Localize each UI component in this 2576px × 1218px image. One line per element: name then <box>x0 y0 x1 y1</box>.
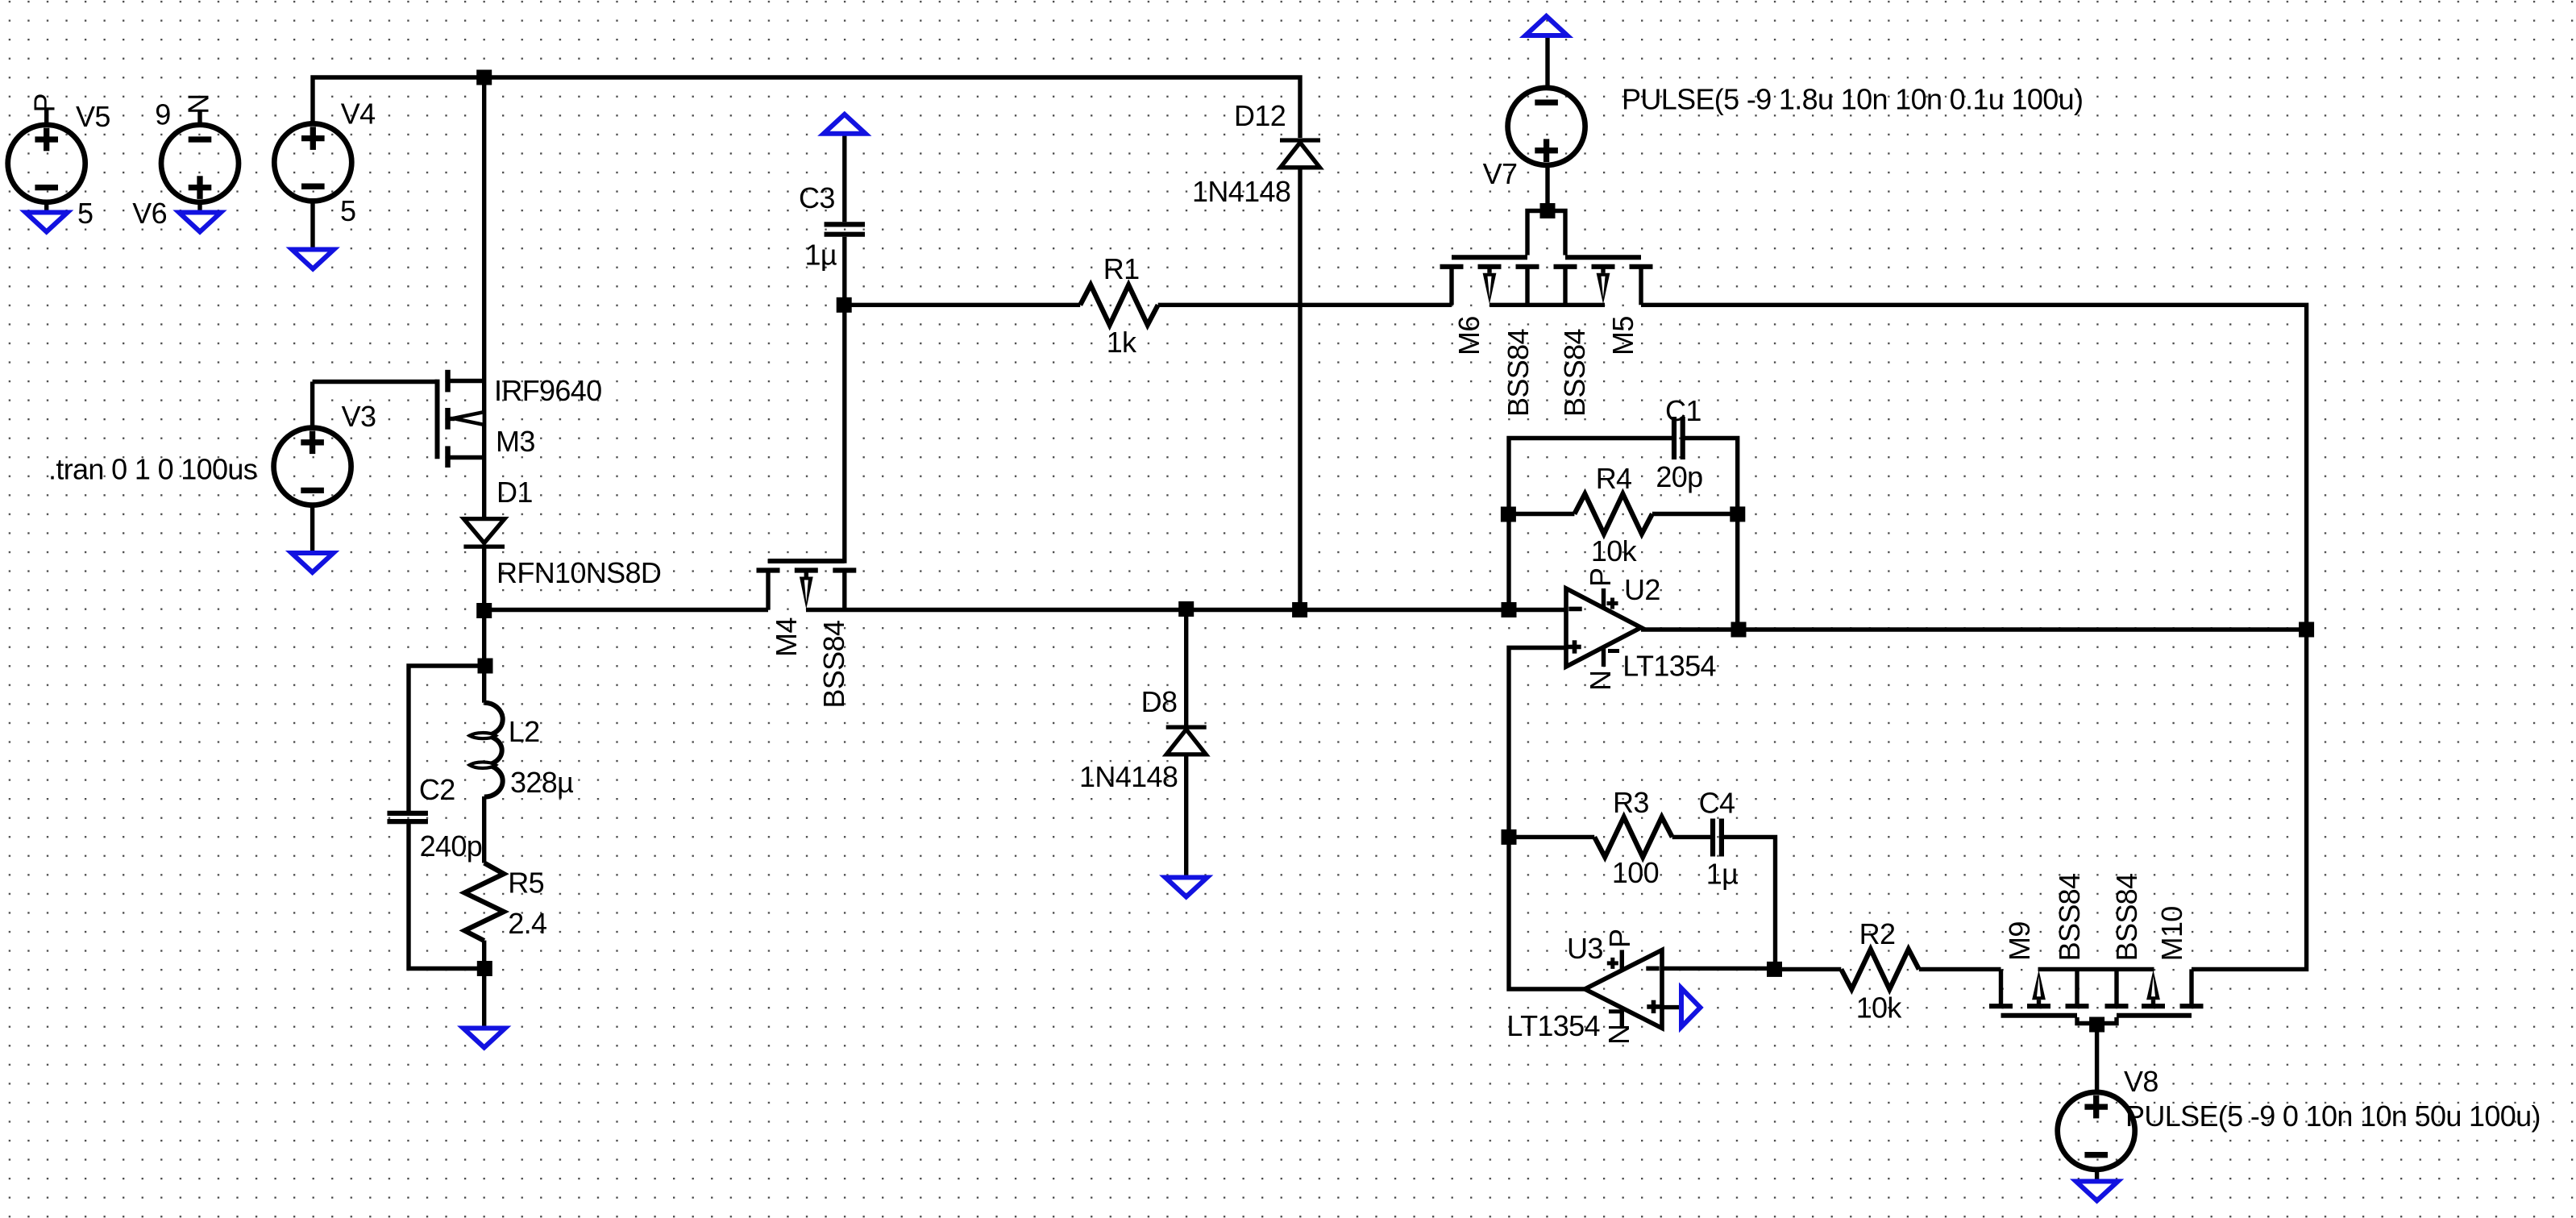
transistor M5 BSS84 <box>1554 257 1653 305</box>
junction node U2 output / feedback <box>1731 622 1747 638</box>
wire M6-M5 middle rail <box>1490 303 1605 307</box>
wire V3 bottom pin <box>310 505 314 552</box>
wire R4 row left <box>1509 512 1574 516</box>
svg-text:N: N <box>1602 1025 1635 1045</box>
label D8 <box>1141 685 1178 718</box>
label M3 <box>496 425 535 458</box>
wire U2 output row <box>1641 627 2307 631</box>
svg-text:IRF9640: IRF9640 <box>494 374 602 407</box>
wire main bus right segment <box>806 608 1566 612</box>
svg-text:2.4: 2.4 <box>508 907 546 940</box>
wire feedback left vertical and C1 row left <box>1509 439 1674 610</box>
label M10 <box>2155 906 2188 961</box>
label IRF9640 <box>494 374 602 407</box>
wire gate yoke to V8 <box>2095 1024 2099 1092</box>
svg-text:V8: V8 <box>2124 1065 2158 1098</box>
label V4 <box>341 98 376 131</box>
svg-text:BSS84: BSS84 <box>1502 329 1535 417</box>
label L2 <box>509 715 540 748</box>
label R2 <box>1859 917 1896 950</box>
svg-text:M4: M4 <box>770 617 803 657</box>
wire V8 ground stub <box>2095 1170 2099 1180</box>
svg-text:N: N <box>1584 671 1617 691</box>
svg-text:20p: 20p <box>1656 460 1702 493</box>
net label N on V6 <box>182 94 215 114</box>
label M9 <box>2003 921 2036 961</box>
svg-text:.tran 0 1 0 100us: .tran 0 1 0 100us <box>48 453 257 486</box>
value LT1354 of U3 <box>1506 1009 1600 1042</box>
resistor R1 <box>1080 285 1158 326</box>
svg-text:M9: M9 <box>2003 921 2036 961</box>
junction node C4 / R2 / U3 inverting <box>1767 962 1782 977</box>
svg-text:V5: V5 <box>76 100 110 133</box>
label M5 <box>1606 316 1639 355</box>
svg-text:V3: V3 <box>342 400 376 433</box>
value 328u of L2 <box>510 766 573 799</box>
svg-text:LT1354: LT1354 <box>1622 650 1716 683</box>
svg-text:L2: L2 <box>509 715 540 748</box>
junction V8 gate node <box>2089 1017 2104 1033</box>
transistor M9 BSS84 <box>1989 969 2089 1015</box>
wire L2 to R5 <box>482 796 486 863</box>
inductor L2 <box>470 666 503 797</box>
junction node R3 / left vertical <box>1502 829 1517 845</box>
wire D8 bottom lead <box>1184 754 1188 876</box>
capacitor C2 <box>387 813 428 821</box>
svg-text:M6: M6 <box>1452 316 1485 355</box>
label C4 <box>1699 786 1735 819</box>
op-amp U3 LT1354 <box>1585 950 1662 1029</box>
resistor R3 <box>1594 817 1672 858</box>
wire R2 to M9 <box>1919 967 2001 971</box>
directive .tran <box>48 453 257 486</box>
net label P on U3 <box>1603 929 1636 948</box>
wire main bus left segment <box>484 608 768 612</box>
op-amp U2 LT1354 <box>1566 588 1641 667</box>
net label P on V5 <box>28 94 61 112</box>
capacitor C4 <box>1713 819 1722 857</box>
wire M9/M10 gate yoke <box>2077 1017 2117 1024</box>
value 240p of C2 <box>420 829 483 863</box>
wire ground stub below R5 node <box>482 969 486 1028</box>
diode D8 <box>1166 727 1207 754</box>
wire V7 flag stub <box>1545 36 1549 87</box>
value 20p of C1 <box>1656 460 1702 493</box>
label C3 <box>799 181 835 214</box>
wire M3 drain column <box>482 77 486 381</box>
label U2 <box>1624 573 1660 606</box>
wire V5 top stub <box>44 110 48 125</box>
wire D12 bottom lead <box>1298 168 1302 610</box>
wire V6 top stub <box>197 110 202 125</box>
label D12 <box>1234 99 1286 132</box>
svg-text:N: N <box>182 94 215 114</box>
svg-text:C1: C1 <box>1665 394 1701 427</box>
svg-text:LT1354: LT1354 <box>1506 1009 1600 1042</box>
svg-text:BSS84: BSS84 <box>2053 874 2086 962</box>
transistor M6 BSS84 <box>1440 257 1539 305</box>
power flag above C3 <box>824 114 866 134</box>
svg-text:R1: R1 <box>1103 252 1140 285</box>
svg-text:PULSE(5 -9 0 10n 10n 50u 100u): PULSE(5 -9 0 10n 10n 50u 100u) <box>2125 1100 2541 1133</box>
wire C1 row right and feedback right vertical <box>1683 439 1738 630</box>
wire V3 to M3 gate <box>313 380 438 384</box>
value 5 of V5 <box>77 197 93 230</box>
value 5 of V4 <box>340 194 355 227</box>
ground flag at U3 noninverting input <box>1681 988 1701 1027</box>
power flag above V7 <box>1526 16 1568 35</box>
svg-text:D8: D8 <box>1141 685 1178 718</box>
svg-text:C2: C2 <box>419 773 455 806</box>
transistor M4 BSS84 <box>757 561 857 610</box>
svg-text:D1: D1 <box>497 476 533 509</box>
label M4 <box>770 617 803 657</box>
junction node output column <box>2299 622 2314 638</box>
svg-text:V6: V6 <box>132 197 167 230</box>
svg-text:C3: C3 <box>799 181 835 214</box>
wire C3 junction to M4 gate drop <box>768 305 845 561</box>
wire U3 inverting input row <box>1662 967 1776 971</box>
wire R5 to ground node <box>482 941 486 969</box>
svg-text:240p: 240p <box>420 829 483 863</box>
label BSS84 of M4 <box>817 621 850 709</box>
svg-text:1µ: 1µ <box>1706 858 1738 891</box>
svg-text:P: P <box>1603 929 1636 948</box>
voltage source V8 <box>2058 1092 2135 1170</box>
svg-text:R3: R3 <box>1613 786 1649 819</box>
value PULSE of V7 <box>1622 82 2083 115</box>
svg-text:P: P <box>1584 568 1617 587</box>
label U3 <box>1567 932 1603 965</box>
svg-text:1k: 1k <box>1107 326 1137 359</box>
ground flag below V3 <box>292 553 334 572</box>
label D1 <box>497 476 533 509</box>
svg-text:V4: V4 <box>341 98 376 131</box>
label V8 <box>2124 1065 2158 1098</box>
label RFN10NS8D <box>497 556 661 589</box>
value LT1354 of U2 <box>1622 650 1716 683</box>
svg-text:RFN10NS8D: RFN10NS8D <box>497 556 661 589</box>
label C1 <box>1665 394 1701 427</box>
net label N on U2 <box>1584 671 1617 691</box>
value 1u of C4 <box>1706 858 1738 891</box>
capacitor C3 <box>825 224 866 234</box>
value 1N4148 of D8 <box>1079 760 1178 793</box>
junction node C3 / R1 / M4 gate <box>837 297 852 313</box>
wire R5 bottom tee <box>409 821 484 968</box>
junction node R5 / C2 / ground <box>477 961 492 976</box>
junction node R4 left / C1 / inverting <box>1501 507 1516 522</box>
label BSS84 of M5 <box>1558 329 1591 417</box>
svg-text:V7: V7 <box>1483 157 1518 190</box>
junction node R4 right / C1 / output <box>1730 506 1745 522</box>
value 9 of V6 <box>155 98 170 131</box>
svg-text:M3: M3 <box>496 425 535 458</box>
svg-text:1N4148: 1N4148 <box>1192 175 1290 208</box>
ground flag below V8 <box>2076 1182 2118 1201</box>
voltage source V7 (flipped) <box>1508 88 1585 165</box>
wire C3 flag stub <box>842 134 846 222</box>
wire L2/C2 tee <box>409 666 484 813</box>
junction node bus / U2 inverting <box>1502 602 1517 617</box>
net label N on U3 <box>1602 1025 1635 1045</box>
svg-text:P: P <box>28 94 61 112</box>
svg-text:D12: D12 <box>1234 99 1286 132</box>
svg-text:PULSE(5 -9 1.8u 10n 10n 0.1u 1: PULSE(5 -9 1.8u 10n 10n 0.1u 100u) <box>1622 82 2083 115</box>
voltage source V4 <box>274 123 351 201</box>
voltage source V5 <box>8 125 85 202</box>
svg-text:M10: M10 <box>2155 906 2188 961</box>
value 1k of R1 <box>1107 326 1137 359</box>
diode D1 <box>463 458 505 610</box>
voltage source V3 <box>274 428 351 505</box>
svg-text:1µ: 1µ <box>805 238 837 271</box>
junction node D8 on bus <box>1178 601 1194 617</box>
svg-text:9: 9 <box>155 98 170 131</box>
junction node top bus / V4 / M3 <box>476 70 492 85</box>
value 10k of R2 <box>1856 991 1903 1025</box>
label R4 <box>1596 462 1632 495</box>
wire V5 bottom stub <box>44 202 48 211</box>
wire R3 to C4 <box>1672 835 1712 839</box>
wire D1 to L2 node <box>482 610 486 667</box>
svg-text:R4: R4 <box>1596 462 1632 495</box>
svg-text:BSS84: BSS84 <box>817 621 850 709</box>
wire R3 row left <box>1509 835 1594 839</box>
junction node L2 / C2 <box>478 659 493 674</box>
svg-text:BSS84: BSS84 <box>1558 329 1591 417</box>
diode D12 <box>1280 140 1320 168</box>
svg-text:100: 100 <box>1612 856 1659 889</box>
wire junction to R2 <box>1776 967 1842 971</box>
wire U2 noninverting input and left vertical to U3 output <box>1509 648 1585 990</box>
label C2 <box>419 773 455 806</box>
transistor M3 IRF9640 <box>438 370 484 468</box>
wire V6 bottom stub <box>197 202 202 211</box>
svg-text:U2: U2 <box>1624 573 1660 606</box>
svg-text:R5: R5 <box>508 867 544 900</box>
net label P on U2 <box>1584 568 1617 587</box>
svg-text:10k: 10k <box>1591 534 1638 567</box>
svg-text:C4: C4 <box>1699 786 1735 819</box>
wire top bus <box>313 77 1300 138</box>
label M6 <box>1452 316 1485 355</box>
svg-text:U3: U3 <box>1567 932 1603 965</box>
resistor R4 <box>1574 494 1652 534</box>
label V7 <box>1483 157 1518 190</box>
junction V7 gate node <box>1540 203 1556 218</box>
ground flag below R5 <box>463 1029 505 1048</box>
value 100 of R3 <box>1612 856 1659 889</box>
wire R4 row right <box>1652 512 1738 516</box>
ground flag below V5 <box>26 213 68 232</box>
wire C4 right corner down <box>1723 837 1776 969</box>
transistor M10 BSS84 <box>2105 969 2204 1015</box>
junction node D12 anode on bus <box>1292 602 1307 617</box>
wire M5 to right corner and down to M10 <box>1641 305 2307 969</box>
svg-text:M5: M5 <box>1606 316 1639 355</box>
svg-text:R2: R2 <box>1859 917 1896 950</box>
label R5 <box>508 867 544 900</box>
svg-text:10k: 10k <box>1856 991 1903 1025</box>
wire R1 row right <box>1158 303 1452 307</box>
wire M9-M10 middle rail <box>2038 967 2154 971</box>
value 2.4 of R5 <box>508 907 546 940</box>
label BSS84 of M10 <box>2110 874 2143 962</box>
resistor R2 <box>1841 950 1919 990</box>
wire M6/M5 gate yoke <box>1527 211 1565 256</box>
label V5 <box>76 100 110 133</box>
svg-text:1N4148: 1N4148 <box>1079 760 1178 793</box>
svg-text:328µ: 328µ <box>510 766 573 799</box>
wire V7 bottom pin <box>1545 166 1549 211</box>
capacitor C1 <box>1674 417 1683 459</box>
label BSS84 of M9 <box>2053 874 2086 962</box>
value 1N4148 of D12 <box>1192 175 1290 208</box>
ground flag below V4 <box>292 250 334 269</box>
label V6 <box>132 197 167 230</box>
junction node D1 cathode / bus / L2 <box>476 603 492 618</box>
svg-text:5: 5 <box>340 194 355 227</box>
svg-text:BSS84: BSS84 <box>2110 874 2143 962</box>
voltage source V6 (flipped) <box>161 125 239 202</box>
value 1u of C3 <box>805 238 837 271</box>
wire C3 to junction <box>842 237 846 306</box>
svg-text:5: 5 <box>77 197 93 230</box>
wire R1 row left <box>845 303 1080 307</box>
label R3 <box>1613 786 1649 819</box>
wire V3 riser <box>310 382 314 428</box>
label V3 <box>342 400 376 433</box>
wire D8 top lead <box>1184 610 1188 726</box>
ground flag below V6 <box>179 213 221 232</box>
label R1 <box>1103 252 1140 285</box>
wire U3 noninverting to flag <box>1662 1005 1681 1009</box>
resistor R5 <box>464 863 504 942</box>
label BSS84 of M6 <box>1502 329 1535 417</box>
wire V4 bottom pin <box>310 201 314 248</box>
ground flag below D8 <box>1165 878 1207 897</box>
value PULSE of V8 <box>2125 1100 2541 1133</box>
value 10k of R4 <box>1591 534 1638 567</box>
